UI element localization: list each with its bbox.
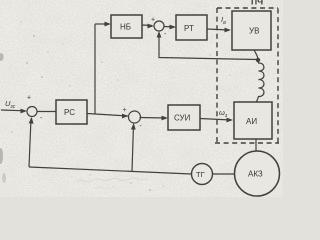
- wire: RT to UV (crosses dashed boundary): [207, 29, 229, 30]
- svg-text:+: +: [123, 107, 127, 114]
- wire: feedback branch up to S3: [132, 125, 134, 172]
- dashed enclosure PCH: [215, 8, 279, 143]
- summing junction S2 (current loop): [154, 21, 164, 31]
- block RT (current regulator): [176, 15, 207, 40]
- summing junction S1 (speed): [27, 107, 37, 117]
- paper background: [0, 0, 283, 197]
- block UV (controlled rectifier): [232, 11, 271, 50]
- svg-text:+: +: [27, 95, 31, 102]
- svg-text:АИ: АИ: [246, 117, 257, 126]
- junction dot below UV: [256, 58, 260, 62]
- block SUI (pulse control system): [168, 105, 200, 130]
- block PC (speed regulator): [56, 100, 87, 124]
- wire: NB to S2: [142, 24, 152, 27]
- svg-text:ТГ: ТГ: [196, 170, 205, 179]
- coil (excitation winding): [256, 61, 264, 103]
- wire: TG feedback to left: [29, 167, 192, 174]
- svg-text:РТ: РТ: [184, 24, 194, 33]
- wire: PC output to S3 with branch up: [87, 114, 128, 117]
- svg-text:УВ: УВ: [249, 27, 259, 36]
- wire: S2 to RT: [164, 26, 174, 29]
- svg-text:АКЗ: АКЗ: [248, 170, 263, 179]
- svg-text:СУИ: СУИ: [174, 114, 191, 123]
- block NB (nonlinear block): [111, 15, 142, 38]
- wire: SUI to AI (crosses dashed boundary): [200, 119, 231, 121]
- faint print smear bottom middle: [76, 178, 147, 188]
- wire: branch vertical up to NB input: [94, 24, 96, 114]
- wire: UV output down to junction: [254, 50, 258, 60]
- wire: current feedback from junction to S2: [159, 33, 258, 60]
- scan dust specks: [11, 21, 230, 190]
- svg-text:-: -: [140, 123, 142, 130]
- wire: into NB: [95, 23, 109, 25]
- wire: S3 to SUI: [140, 117, 167, 120]
- summing junction S3 (before SUI): [129, 111, 141, 123]
- machine AKZ (synchronous machine): [235, 151, 280, 196]
- wire: Uz input to speed summing node: [1, 109, 25, 112]
- scan smudges: [0, 53, 6, 183]
- wire: AI down to AKZ: [255, 139, 257, 151]
- svg-text:ПЧ: ПЧ: [251, 0, 263, 7]
- tachogenerator TG: [192, 164, 213, 185]
- svg-text:НБ: НБ: [120, 23, 131, 32]
- wire: feedback up to S1: [29, 119, 31, 168]
- wire: S1 to PC: [37, 111, 56, 113]
- svg-text:РС: РС: [64, 108, 75, 117]
- block AI (inverter): [234, 102, 272, 139]
- wire: AKZ to TG: [213, 173, 235, 175]
- svg-text:+: +: [151, 17, 155, 24]
